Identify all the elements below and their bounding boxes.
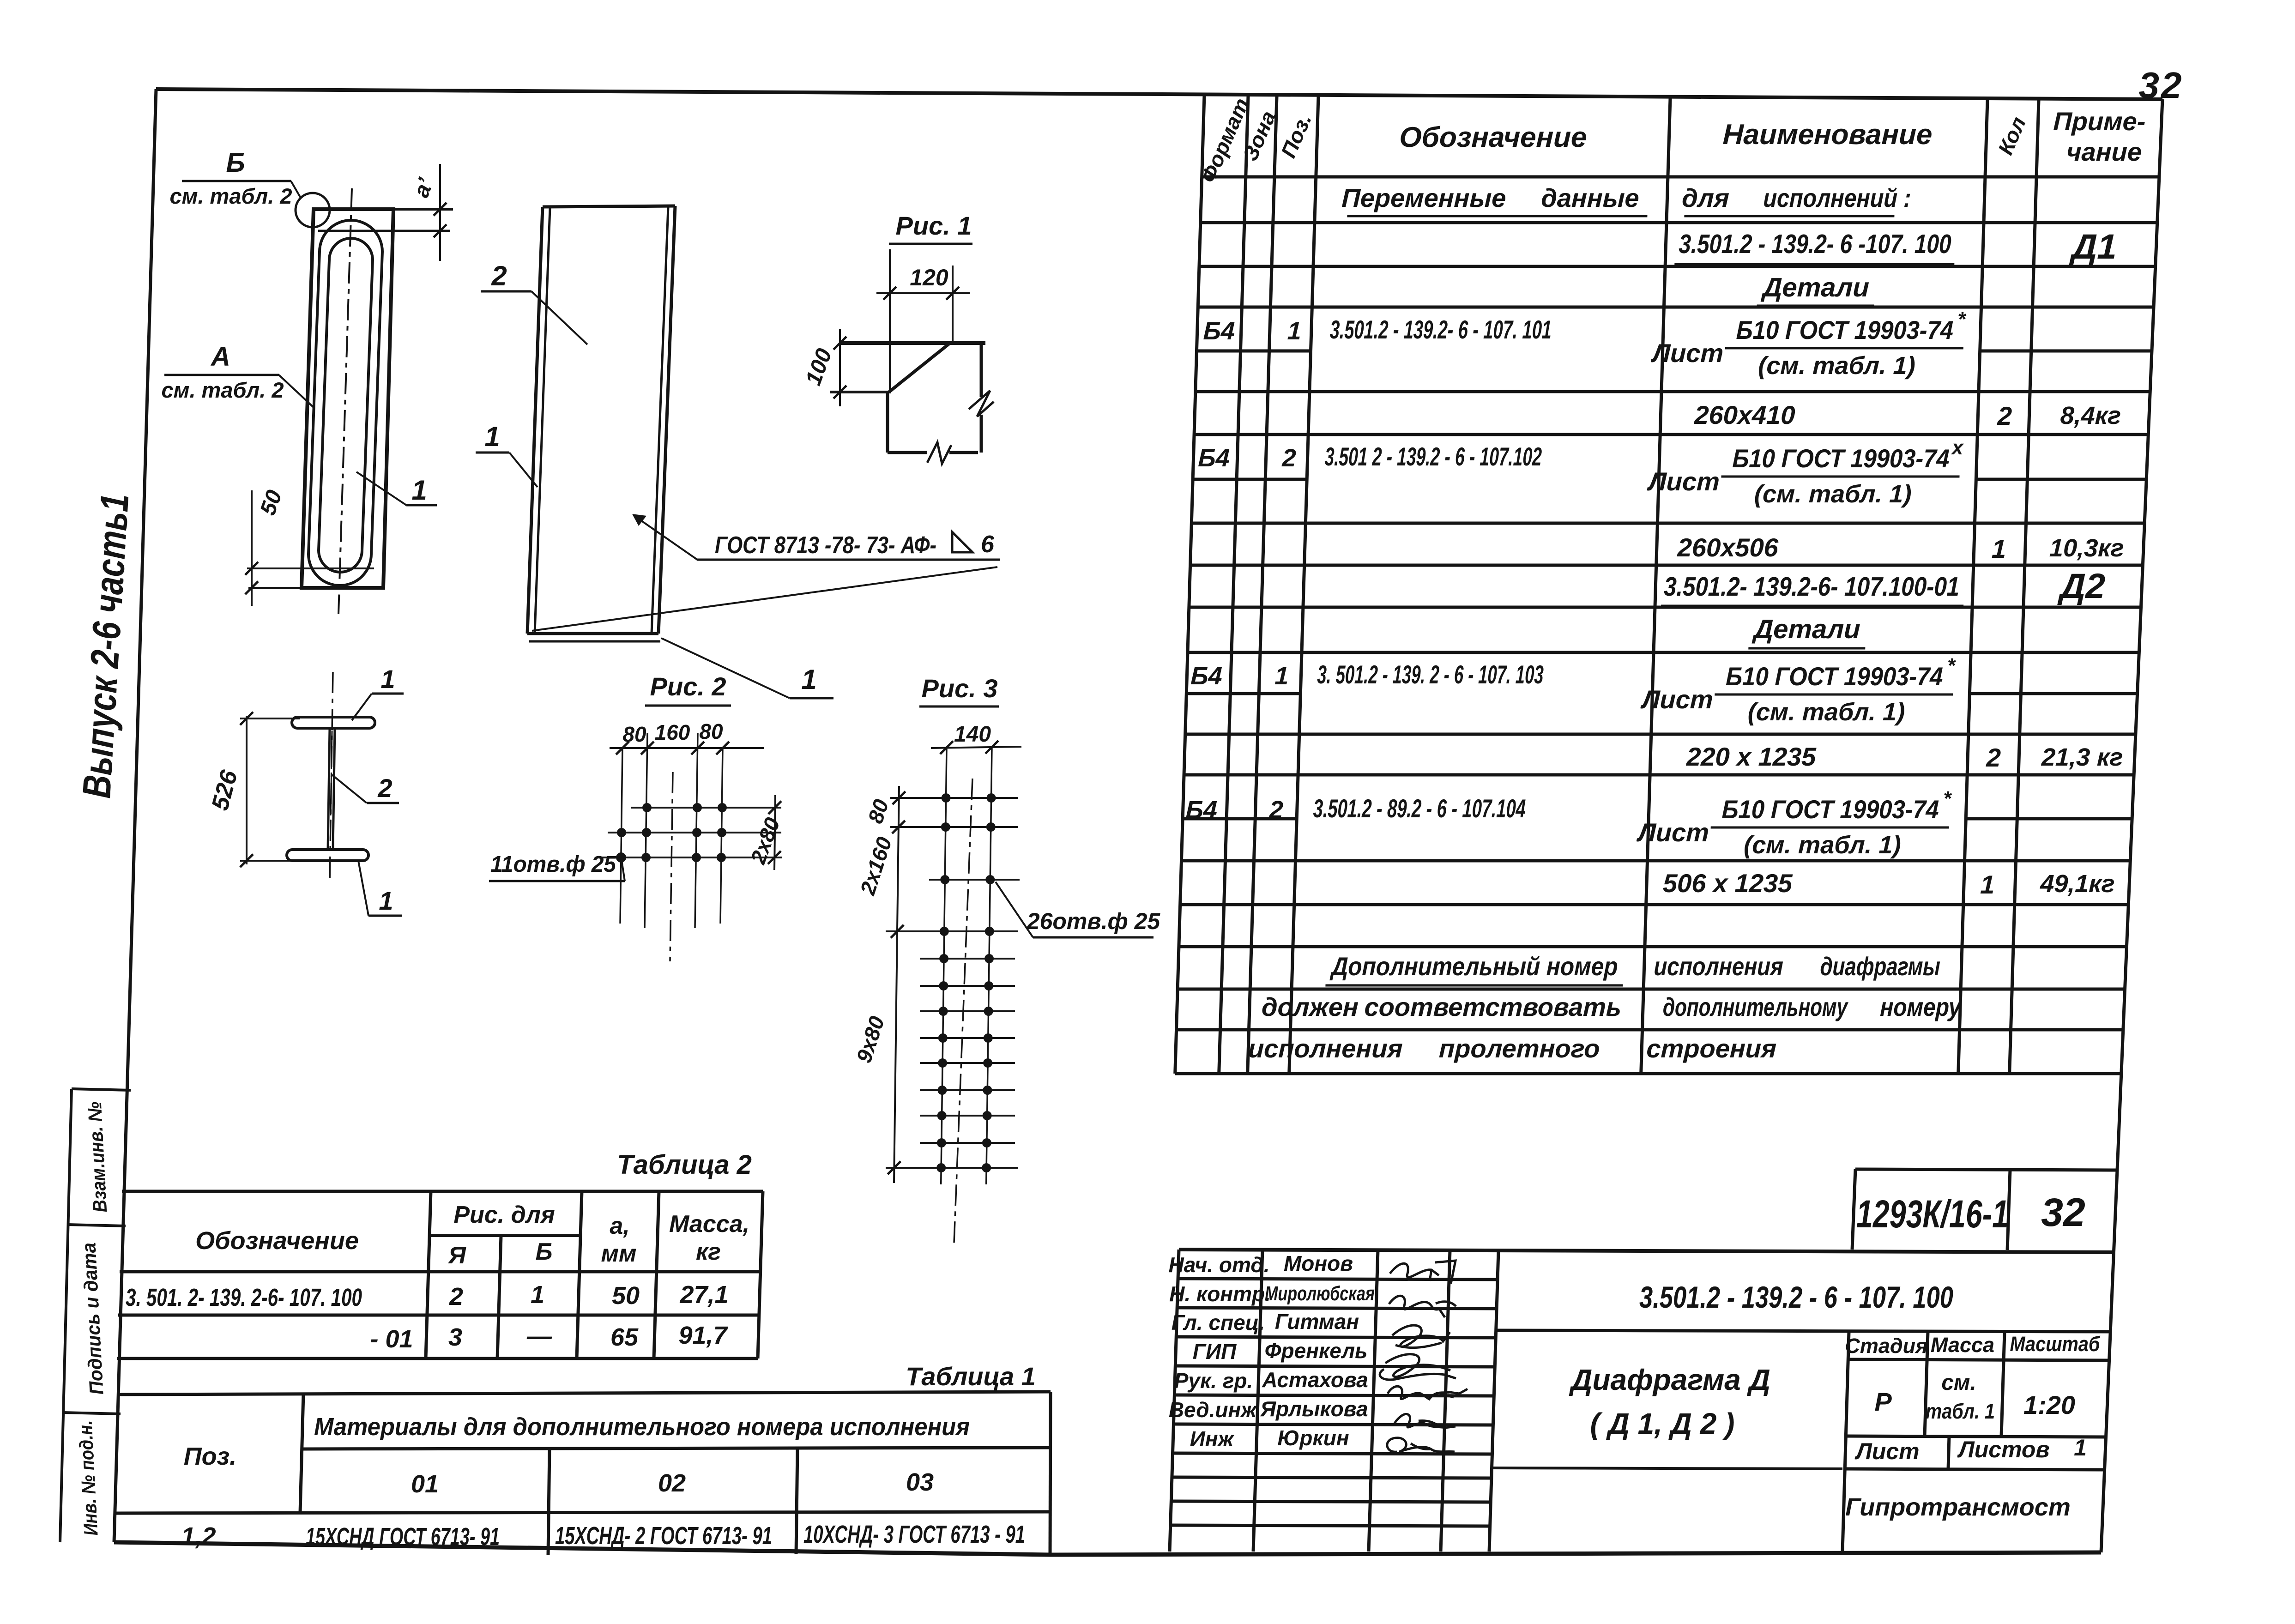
- spec row line y2325: [1175, 1072, 2121, 1075]
- svg-text:мм: мм: [601, 1240, 637, 1267]
- spec row line y1773 (partial, merged cells): [1183, 817, 1297, 821]
- svg-text:Б10 ГОСТ 19903-74: Б10 ГОСТ 19903-74: [1732, 444, 1950, 473]
- svg-text:3.501.2 - 139.2- 6 - 107. 101: 3.501.2 - 139.2- 6 - 107. 101: [1329, 315, 1552, 344]
- weld leader to plate edge with arrow: [634, 515, 697, 560]
- svg-text:Инж: Инж: [1190, 1427, 1235, 1451]
- svg-text:Детали: Детали: [1760, 272, 1870, 302]
- Рис.3 hole column lines: [941, 748, 947, 1184]
- svg-text:Стадия: Стадия: [1845, 1334, 1927, 1358]
- svg-text:Гитман: Гитман: [1275, 1310, 1359, 1334]
- svg-text:соответствовать: соответствовать: [1364, 992, 1622, 1021]
- Рис.1 extension lines: [889, 249, 891, 393]
- Таблица 1 grid: [115, 1392, 1051, 1555]
- svg-text:для: для: [1681, 183, 1729, 212]
- svg-text:Б10 ГОСТ 19903-74: Б10 ГОСТ 19903-74: [1726, 662, 1944, 691]
- svg-text:2: 2: [1268, 796, 1284, 824]
- svg-text:Б4: Б4: [1185, 796, 1218, 824]
- spec table left edge: [1175, 95, 1204, 1074]
- svg-text:32: 32: [2041, 1190, 2085, 1235]
- svg-text:(см. табл. 1): (см. табл. 1): [1744, 831, 1902, 859]
- svg-text:65: 65: [610, 1323, 639, 1351]
- spec row line y941: [1194, 433, 2148, 436]
- svg-text:1: 1: [380, 664, 395, 694]
- Рис.2 holes row2: [617, 828, 626, 837]
- signatures: [1380, 1261, 1468, 1452]
- svg-text:8,4кг: 8,4кг: [2060, 402, 2121, 429]
- Рис.1 corner shape: [839, 341, 985, 345]
- svg-text:номеру: номеру: [1880, 992, 1963, 1021]
- title block: [1170, 1250, 2114, 1552]
- svg-text:1: 1: [531, 1281, 544, 1309]
- Рис.3 holes (26): [936, 793, 996, 1172]
- svg-text:Лист: Лист: [1636, 818, 1709, 847]
- spec row line y1590: [1185, 733, 2136, 736]
- svg-text:Лист: Лист: [1854, 1438, 1919, 1464]
- svg-text:Б4: Б4: [1190, 662, 1223, 690]
- svg-text:Юркин: Юркин: [1277, 1426, 1349, 1450]
- svg-text:(см. табл. 1): (см. табл. 1): [1754, 480, 1912, 508]
- spec row line y1038 (partial, merged cells): [1193, 478, 1307, 481]
- view A corner detail circle Б: [296, 193, 330, 227]
- spec row line y482: [1201, 221, 2157, 224]
- I-beam dim 526: [246, 716, 248, 864]
- svg-text:Таблица 1: Таблица 1: [906, 1362, 1036, 1391]
- svg-text:Гл. спец.: Гл. спец.: [1172, 1310, 1265, 1334]
- svg-text:Миролюбская: Миролюбская: [1265, 1282, 1375, 1305]
- svg-text:32: 32: [2139, 65, 2184, 106]
- svg-text:3.501.2- 139.2-6- 107.100-01: 3.501.2- 139.2-6- 107.100-01: [1663, 572, 1960, 602]
- svg-text:- 01: - 01: [370, 1325, 413, 1353]
- svg-text:49,1кг: 49,1кг: [2040, 870, 2115, 898]
- svg-text:1: 1: [484, 421, 500, 452]
- svg-text:Монов: Монов: [1284, 1251, 1353, 1275]
- svg-text:Масса,: Масса,: [669, 1211, 749, 1238]
- spec column line 1: [1219, 96, 1248, 1074]
- Рис.3 centre axis: [954, 779, 972, 1243]
- svg-text:Астахова: Астахова: [1262, 1368, 1368, 1392]
- svg-text:Д2: Д2: [2057, 567, 2106, 606]
- weld leader underline: [697, 559, 1000, 561]
- svg-text:506 х 1235: 506 х 1235: [1662, 869, 1793, 898]
- svg-text:03: 03: [906, 1468, 934, 1496]
- svg-text:Рис. 2: Рис. 2: [650, 672, 726, 701]
- title block vertical: signature col: [1441, 1250, 1450, 1552]
- spec column line 4: [1641, 98, 1670, 1074]
- sheet frame left border: [114, 89, 156, 1542]
- spec row line y2142: [1178, 988, 2125, 991]
- spec row line y1413: [1188, 651, 2139, 654]
- document stamp box 1293К/16-1 | 32: [1852, 1169, 2116, 1250]
- svg-text:Вед.инж: Вед.инж: [1169, 1398, 1257, 1422]
- svg-text:А: А: [210, 342, 230, 372]
- svg-text:140: 140: [954, 722, 991, 747]
- svg-text:Переменные: Переменные: [1341, 183, 1507, 212]
- svg-text:Б4: Б4: [1198, 444, 1230, 472]
- svg-text:3: 3: [448, 1323, 462, 1351]
- svg-text:исполнения: исполнения: [1248, 1034, 1403, 1063]
- left margin stamp boxes: [60, 1089, 131, 1542]
- Рис.1 break marks: [927, 442, 951, 464]
- svg-text:Р: Р: [1874, 1387, 1892, 1416]
- svg-text:1: 1: [1980, 870, 1995, 899]
- svg-text:Рис. 1: Рис. 1: [896, 211, 972, 240]
- svg-text:3.501 2 - 139.2 - 6 - 107.102: 3.501 2 - 139.2 - 6 - 107.102: [1324, 442, 1542, 471]
- svg-text:1: 1: [411, 475, 427, 506]
- svg-text:1: 1: [801, 664, 816, 695]
- spec row line y760 (partial, merged cells): [1197, 350, 1311, 353]
- Рис.2 top dim line 80 160 80: [610, 747, 764, 749]
- spec row line y1224: [1190, 564, 2143, 567]
- svg-text:пролетного: пролетного: [1438, 1034, 1600, 1063]
- svg-text:3.501.2 - 89.2 - 6 - 107.104: 3.501.2 - 89.2 - 6 - 107.104: [1313, 794, 1526, 823]
- view A slot centre line: [338, 188, 352, 614]
- svg-text:15ХСНД ГОСТ 6713- 91: 15ХСНД ГОСТ 6713- 91: [306, 1523, 500, 1551]
- Рис.3 dim line 140: [931, 747, 1021, 748]
- title block vertical: right section left edge: [1842, 1332, 1849, 1552]
- I-beam web double line: [328, 728, 330, 850]
- Рис.1 dim 100: [839, 329, 841, 406]
- svg-text:Нач. отд.: Нач. отд.: [1168, 1253, 1269, 1277]
- I-beam top flange: [292, 717, 375, 728]
- svg-text:Френкель: Френкель: [1265, 1339, 1368, 1363]
- spec row line y1959: [1180, 903, 2129, 906]
- svg-text:2: 2: [449, 1283, 463, 1310]
- spec row line y665: [1198, 306, 2154, 309]
- svg-text:кг: кг: [696, 1238, 721, 1265]
- spec row line y383: [1202, 175, 2159, 179]
- svg-text:260х506: 260х506: [1677, 533, 1779, 562]
- svg-text:—: —: [526, 1322, 552, 1350]
- svg-text:см. табл. 2: см. табл. 2: [162, 378, 284, 402]
- svg-text:Б: Б: [226, 148, 245, 178]
- svg-text:(см. табл. 1): (см. табл. 1): [1758, 352, 1916, 380]
- svg-text:диафрагмы: диафрагмы: [1820, 952, 1941, 981]
- svg-text:Рис. для: Рис. для: [453, 1201, 555, 1228]
- spec table texts (sheared group to follow scan skew): [1169, 95, 2146, 1063]
- svg-text:Масса: Масса: [1931, 1333, 1994, 1357]
- Рис.1 dim line 120: [876, 292, 970, 294]
- view A dimension 50: [251, 490, 253, 606]
- svg-text:х: х: [1951, 436, 1964, 459]
- sheet frame top border: [156, 89, 2162, 99]
- spec row line y1315: [1189, 606, 2141, 609]
- spec column line 2: [1248, 97, 1277, 1074]
- Рис.2 hole row lines: [631, 807, 781, 809]
- svg-text:11отв.ф 25: 11отв.ф 25: [490, 852, 616, 877]
- svg-text:Наименование: Наименование: [1722, 119, 1933, 151]
- svg-text:Рук. гр.: Рук. гр.: [1174, 1369, 1253, 1393]
- svg-text:15ХСНД- 2 ГОСТ 6713- 91: 15ХСНД- 2 ГОСТ 6713- 91: [555, 1522, 772, 1550]
- svg-text:Масштаб: Масштаб: [2010, 1332, 2101, 1356]
- svg-text:80: 80: [622, 722, 646, 746]
- svg-text:6: 6: [981, 531, 995, 558]
- svg-text:1293К/16-1: 1293К/16-1: [1856, 1192, 2009, 1236]
- title block vertical: date col / big cell left: [1489, 1250, 1498, 1552]
- svg-text:Н. контр.: Н. контр.: [1169, 1282, 1271, 1306]
- spec row line y1502 (partial, merged cells): [1186, 692, 1300, 695]
- svg-text:Б4: Б4: [1203, 317, 1235, 345]
- Рис.2 dim 2х80: [774, 795, 775, 870]
- svg-text:Б10 ГОСТ 19903-74: Б10 ГОСТ 19903-74: [1721, 795, 1939, 824]
- view A chamfer outline around slot: [308, 220, 382, 586]
- svg-text:1: 1: [2074, 1435, 2087, 1461]
- svg-text:см.: см.: [1941, 1370, 1976, 1395]
- view B right edge double line: [658, 206, 675, 634]
- масса/масштаб divider: [2001, 1332, 2005, 1436]
- spec row line y577: [1199, 265, 2156, 268]
- svg-text:80: 80: [699, 719, 723, 743]
- svg-text:3. 501. 2- 139. 2-6- 107. 100: 3. 501. 2- 139. 2-6- 107. 100: [126, 1284, 362, 1311]
- svg-text:Диафрагма Д: Диафрагма Д: [1569, 1363, 1770, 1396]
- стадия header bottom: [1848, 1359, 2108, 1360]
- svg-text:Лист: Лист: [1640, 685, 1713, 714]
- svg-text:ГИП: ГИП: [1193, 1340, 1237, 1364]
- лист row bottom: [1845, 1469, 2105, 1470]
- svg-text:дополнительному: дополнительному: [1662, 992, 1849, 1021]
- svg-text:Ярлыкова: Ярлыкова: [1260, 1397, 1368, 1421]
- svg-text:ГОСТ 8713 -78- 73- АФ-: ГОСТ 8713 -78- 73- АФ-: [715, 532, 936, 559]
- Рис.3 left dim line: [894, 786, 899, 1183]
- svg-text:1: 1: [1991, 534, 2006, 563]
- view A plate outline: [302, 209, 393, 588]
- svg-text:10,3кг: 10,3кг: [2049, 534, 2124, 562]
- svg-text:Д1: Д1: [2069, 227, 2118, 266]
- svg-text:160: 160: [655, 720, 690, 744]
- svg-text:должен: должен: [1261, 992, 1359, 1021]
- svg-text:Материалы для дополнительн: Материалы для дополнительного номера исп…: [314, 1413, 970, 1441]
- sheet frame bottom border: [114, 1542, 2101, 1555]
- svg-text:3.501.2 - 139.2- 6 -107. 100: 3.501.2 - 139.2- 6 -107. 100: [1679, 229, 1952, 259]
- Рис.2 centre axis: [670, 772, 673, 961]
- svg-text:120: 120: [910, 265, 948, 290]
- svg-text:220 х 1235: 220 х 1235: [1685, 742, 1817, 771]
- values row bottom: [1846, 1436, 2106, 1437]
- spec row line y1678: [1184, 773, 2134, 777]
- Рис.2 holes row3: [616, 852, 626, 863]
- svg-text:Б10 ГОСТ 19903-74: Б10 ГОСТ 19903-74: [1736, 315, 1954, 344]
- spec row line y2050: [1179, 945, 2127, 948]
- view B top edge: [543, 206, 675, 207]
- svg-text:2: 2: [1281, 444, 1297, 472]
- svg-text:10ХСНД- 3 ГОСТ 6713 - 91: 10ХСНД- 3 ГОСТ 6713 - 91: [803, 1521, 1025, 1548]
- view A top edge extension: [393, 208, 453, 211]
- svg-text:(см. табл. 1): (см. табл. 1): [1747, 698, 1905, 726]
- Рис.3 hole row lines: [890, 797, 1018, 799]
- spec column line 3: [1289, 97, 1318, 1074]
- svg-text:Таблица 2: Таблица 2: [617, 1150, 752, 1180]
- view B bottom edge double line: [527, 632, 658, 635]
- Рис.2 holes row1: [616, 803, 727, 863]
- svg-text:см. табл. 2: см. табл. 2: [170, 184, 292, 208]
- svg-text:а,: а,: [610, 1213, 629, 1239]
- svg-text:1: 1: [379, 886, 393, 915]
- svg-text:Рис. 3: Рис. 3: [922, 674, 998, 703]
- view B left edge double line: [527, 207, 543, 634]
- svg-text:1:20: 1:20: [2023, 1390, 2075, 1419]
- Рис.2 hole column lines: [620, 748, 622, 924]
- spec row line y2230: [1177, 1028, 2123, 1032]
- view A dimension a': [439, 164, 441, 261]
- svg-text:2: 2: [1997, 401, 2012, 430]
- spec column line 5: [1958, 100, 1987, 1074]
- sheet frame right border: [2101, 99, 2162, 1552]
- weld flag triangle: [952, 532, 972, 552]
- title block vertical: name col: [1369, 1250, 1378, 1552]
- svg-text:260х410: 260х410: [1694, 400, 1796, 429]
- title block row lines (names): [1178, 1279, 1498, 1280]
- svg-text:чание: чание: [2066, 137, 2142, 166]
- svg-text:строения: строения: [1646, 1034, 1777, 1063]
- title block top edge: [1179, 1250, 2114, 1252]
- svg-text:2: 2: [377, 773, 392, 803]
- svg-text:Б: Б: [536, 1238, 553, 1265]
- view A slot hole outline: [319, 238, 373, 572]
- svg-text:Листов: Листов: [1957, 1437, 2049, 1462]
- svg-text:3.501.2 - 139.2 - 6 - 107. 1: 3.501.2 - 139.2 - 6 - 107. 100: [1639, 1280, 1953, 1314]
- svg-text:Лист: Лист: [1650, 338, 1724, 368]
- svg-text:2: 2: [1986, 743, 2001, 772]
- svg-text:01: 01: [411, 1470, 439, 1498]
- svg-text:1: 1: [1274, 662, 1289, 690]
- Таблица 2 grid: [117, 1191, 763, 1358]
- svg-text:26отв.ф 25: 26отв.ф 25: [1027, 908, 1161, 934]
- name cell bottom / лист row area: [1492, 1468, 1842, 1469]
- svg-text:Приме-: Приме-: [2053, 107, 2146, 136]
- spec column line 6: [2010, 100, 2039, 1074]
- svg-text:50: 50: [612, 1282, 640, 1310]
- spec row line y1133: [1192, 522, 2145, 525]
- svg-text:27,1: 27,1: [679, 1281, 728, 1309]
- svg-text:исполнения: исполнения: [1654, 952, 1784, 981]
- svg-text:1: 1: [1287, 317, 1302, 345]
- svg-text:Гипротрансмост: Гипротрансмост: [1845, 1493, 2071, 1521]
- svg-text:Я: Я: [447, 1242, 466, 1269]
- doc number cell bottom: [1495, 1330, 2111, 1332]
- view A slot top extension line: [318, 230, 450, 232]
- svg-text:( Д 1, Д 2 ): ( Д 1, Д 2 ): [1590, 1407, 1735, 1440]
- title block left edge: [1170, 1250, 1179, 1552]
- лист/листов divider: [1948, 1436, 1949, 1469]
- svg-text:91,7: 91,7: [678, 1322, 728, 1349]
- I-beam bottom flange: [287, 850, 368, 861]
- parts specification table (right): [1175, 95, 2159, 1074]
- svg-text:исполнений :: исполнений :: [1763, 183, 1912, 212]
- стадия/масса divider: [1925, 1332, 1928, 1436]
- title block vertical: label col: [1253, 1250, 1262, 1552]
- svg-text:2: 2: [491, 260, 507, 291]
- svg-text:Поз.: Поз.: [184, 1443, 236, 1470]
- svg-text:данные: данные: [1540, 183, 1639, 212]
- svg-text:Детали: Детали: [1751, 614, 1861, 644]
- svg-text:3. 501.2 - 139. 2 - 6 - 107. 1: 3. 501.2 - 139. 2 - 6 - 107. 103: [1317, 660, 1544, 689]
- svg-text:Дополнительный номер: Дополнительный номер: [1329, 952, 1618, 981]
- weld long leader to plate bottom corner: [532, 567, 997, 631]
- spec row line y848: [1196, 390, 2150, 393]
- svg-text:Обозначение: Обозначение: [1399, 121, 1587, 153]
- svg-text:1,2: 1,2: [181, 1522, 216, 1550]
- svg-text:21,3 кг: 21,3 кг: [2041, 743, 2123, 771]
- spec row line y1864: [1182, 859, 2131, 863]
- svg-text:табл. 1: табл. 1: [1926, 1399, 1995, 1423]
- svg-text:Обозначение: Обозначение: [195, 1227, 359, 1255]
- svg-text:02: 02: [658, 1469, 686, 1497]
- svg-text:Лист: Лист: [1646, 467, 1720, 496]
- I-beam vertical axis: [330, 672, 333, 883]
